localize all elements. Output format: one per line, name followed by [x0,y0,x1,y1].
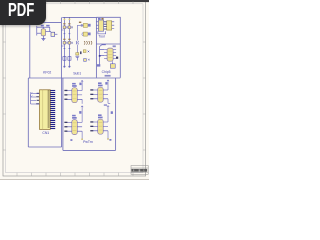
wire bus 2 [68,17,70,67]
sheet symbol box F [63,78,116,150]
bead L4 [68,41,71,44]
right pins [113,50,116,59]
left pins [104,50,107,59]
relay coil left [98,20,103,31]
frame ruler ticks top [17,2,133,4]
frame ruler ticks sides [3,42,146,150]
input rail wire [37,26,41,36]
PDF badge [0,0,46,25]
R3 left arc [81,33,84,36]
title block dark cell [131,169,147,172]
ground 1 [63,66,66,67]
connector body [40,90,51,130]
capacitor C1 [51,32,55,36]
chip U1 body [107,48,113,61]
net label [41,25,44,27]
capacitor C5 [63,57,66,61]
right pins [112,22,115,29]
transformer T2 [90,80,110,106]
sheet frame outer [3,2,146,176]
transformer T4 [90,106,113,141]
sheet frame inner [6,4,143,173]
sheet symbol box E [28,78,61,147]
connector pins right [50,91,55,129]
capacitor C8 [76,53,79,55]
ground 2 [68,66,71,67]
C8 plates [75,56,79,60]
under wire [98,31,106,34]
body divider [42,90,44,130]
capacitor C7 arc [76,41,79,44]
mid wire 2 [76,45,78,53]
left wires [31,94,40,105]
transformer T1 [64,80,83,104]
ground [41,39,45,41]
net blob [97,64,100,66]
center pins [104,22,107,29]
wire bus 1 [63,17,65,67]
bead texts [66,26,67,28]
pin name texts [36,93,39,105]
resistor R3 [83,32,87,36]
net flags [30,92,32,97]
svg-text:Chip5: Chip5 [102,70,111,74]
wire right [46,31,51,33]
capacitor C2 [83,50,86,53]
pin number texts [48,91,50,128]
svg-text:Tool: Tool [98,35,104,39]
edge stubs [62,30,64,46]
svg-text:PwTrn: PwTrn [83,140,93,144]
R2 value [88,24,91,27]
C2 left text [80,51,81,54]
sheet symbol box B [62,17,96,77]
left pins [97,22,99,29]
junction [99,55,101,57]
bead L1 [63,26,66,29]
inductor coil L7 [84,41,92,44]
value marks 2 [63,39,65,40]
wire top [40,27,50,31]
resistor R2 [83,23,87,27]
R3 value [88,33,91,36]
sheet symbol box C [96,17,120,44]
value text [116,57,118,59]
svg-text:CN1: CN1 [42,131,49,135]
regulator Q1 body [41,29,45,36]
top-right text [113,45,116,47]
R2 left mark [81,24,83,26]
value marks [63,23,65,24]
svg-text:Sub1: Sub1 [73,72,81,76]
power flag [100,45,106,47]
page background [0,0,149,198]
frame ruler ticks bottom [17,173,133,176]
row divider line [28,77,120,79]
wire ticks [63,34,70,49]
capacitor C6 [68,57,71,61]
ref text [98,18,101,20]
top pads [64,19,66,21]
bead L3 [63,41,66,44]
title block [131,166,148,175]
wire bottom [42,36,44,39]
sheet symbol box A [30,17,62,78]
crystal wire [111,61,113,64]
C3 mark [88,59,90,61]
transformer T3 [64,106,83,141]
page bottom edge [0,179,149,181]
crystal Y1 [110,64,115,68]
C2 mark [88,51,90,53]
relay coil right [107,21,112,30]
capacitor C3 [84,59,87,62]
svg-text:KF02: KF02 [43,71,51,75]
bead L2 [68,26,71,29]
left wire [100,47,105,66]
wire right 2 [55,33,58,35]
sheet frame top dark line [0,0,149,2]
R2 wire [77,24,83,26]
mid wire [76,25,78,40]
R2 top text [79,22,81,23]
sheet symbol box D [119,44,121,78]
